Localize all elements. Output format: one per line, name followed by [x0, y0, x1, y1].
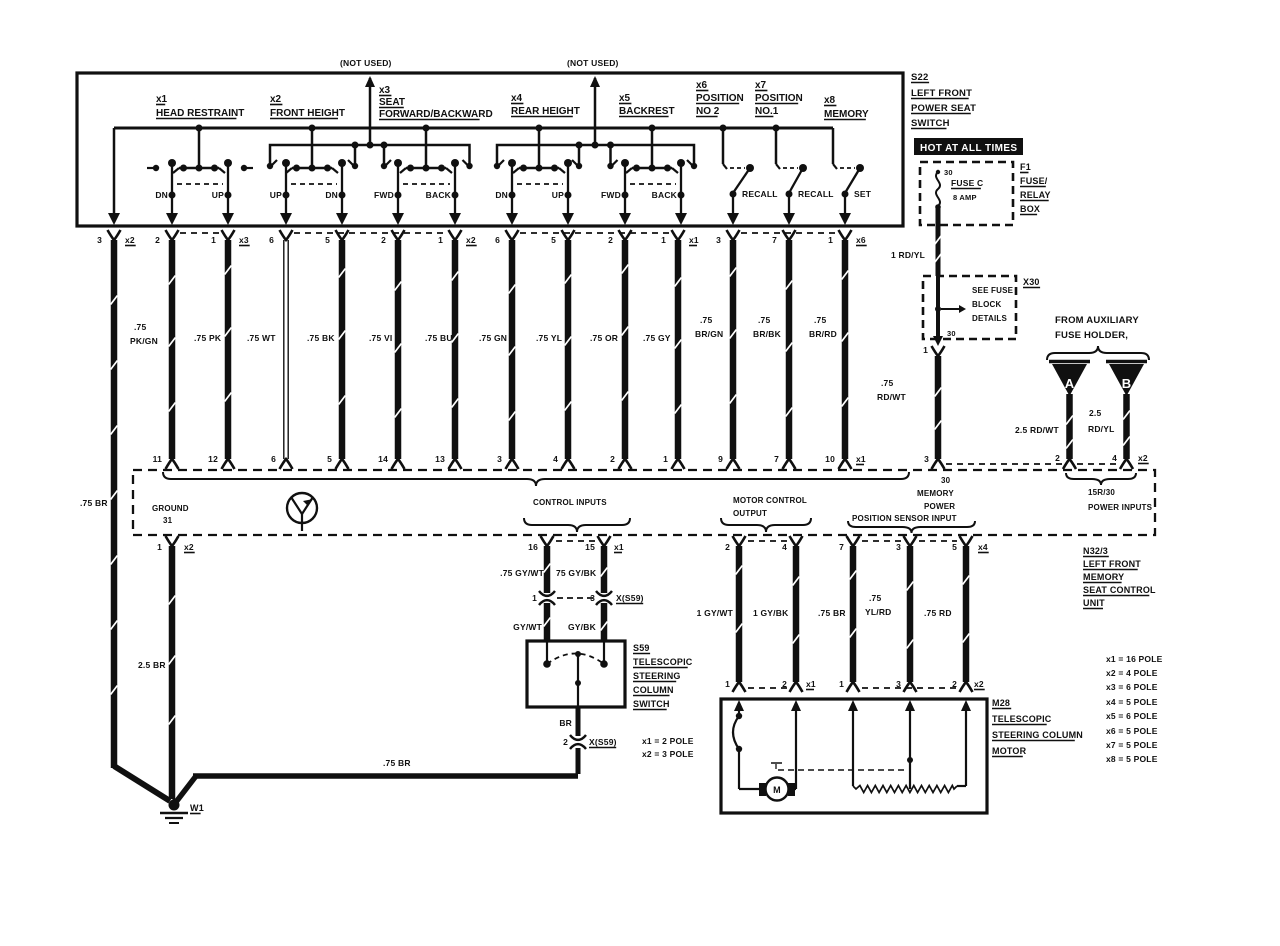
switch head restraint contact bar	[179, 167, 219, 170]
wire .75 OR vertical run	[622, 240, 629, 459]
wire GY/WT	[544, 603, 551, 641]
svg-text:X(S59): X(S59)	[616, 593, 644, 603]
switch head restraint common riser	[198, 128, 201, 168]
switch position/memory no.1 lever RECALL	[730, 167, 745, 169]
svg-text:1: 1	[663, 454, 668, 464]
connector pin 11 at control unit top	[166, 459, 179, 469]
svg-text:PK/GN: PK/GN	[130, 336, 158, 346]
wire .75 PK vertical run	[225, 240, 232, 459]
arrow out of X30	[933, 336, 943, 346]
dashed connector links at motor M28 top	[748, 687, 788, 689]
motor mechanical link dashed	[771, 762, 782, 764]
svg-text:1: 1	[532, 593, 537, 603]
svg-text:x4: x4	[978, 542, 988, 552]
switch backrest right lever BACK	[677, 159, 685, 167]
wire motor/sensor no.2	[793, 546, 800, 682]
wire .75 BU vertical run	[452, 240, 459, 459]
svg-text:MEMORY: MEMORY	[917, 489, 954, 498]
see fuse block details arrow	[941, 308, 959, 310]
dashed connector links below control unit	[556, 540, 595, 542]
connector pin 5 below S22 / wire .75 YL	[562, 230, 575, 240]
connector pin 1 below S22 / wire .75 BR/RD	[839, 230, 852, 240]
svg-text:MEMORY: MEMORY	[1083, 572, 1124, 582]
svg-text:NO 2: NO 2	[696, 106, 720, 117]
connector pin 1 at motor M28	[847, 682, 860, 692]
svg-text:RD/YL: RD/YL	[1088, 424, 1115, 434]
svg-text:GROUND: GROUND	[152, 504, 189, 513]
svg-text:1: 1	[725, 679, 730, 689]
svg-text:x6 = 5 POLE: x6 = 5 POLE	[1106, 726, 1158, 736]
svg-text:x1 = 16 POLE: x1 = 16 POLE	[1106, 654, 1163, 664]
svg-text:x5: x5	[619, 93, 631, 104]
svg-text:BACKREST: BACKREST	[619, 106, 675, 117]
svg-text:3: 3	[716, 235, 721, 245]
wire 1 RD/YL	[936, 207, 941, 276]
svg-text:.75: .75	[869, 593, 881, 603]
svg-text:FUSE HOLDER,: FUSE HOLDER,	[1055, 330, 1128, 341]
S59 wiper output	[575, 651, 581, 657]
svg-text:POSITION: POSITION	[696, 93, 744, 104]
svg-text:7: 7	[839, 542, 844, 552]
connector pin 3 at motor M28	[904, 682, 917, 692]
svg-text:FUSE/: FUSE/	[1020, 176, 1048, 186]
connector pin 5 below S22 / wire .75 BK	[336, 230, 349, 240]
svg-text:S59: S59	[633, 643, 650, 653]
switch head restraint left lever DN	[168, 159, 176, 167]
svg-text:x6: x6	[696, 80, 708, 91]
svg-text:FORWARD/BACKWARD: FORWARD/BACKWARD	[379, 109, 493, 120]
switch position/memory no.3 riser	[832, 128, 835, 164]
svg-text:GY/WT: GY/WT	[513, 622, 542, 632]
svg-text:UP: UP	[552, 190, 564, 200]
arrow to box top (not used) no.1	[365, 76, 375, 87]
switch backrest output wires with arrows	[624, 195, 626, 213]
connector pin 2 at motor M28	[960, 682, 973, 692]
wire .75 RD/WT	[935, 356, 942, 459]
svg-text:3: 3	[896, 542, 901, 552]
connector pin 1 below X30	[932, 346, 945, 356]
svg-text:HEAD RESTRAINT: HEAD RESTRAINT	[156, 108, 244, 119]
motor symbol	[759, 783, 766, 796]
svg-text:2: 2	[725, 542, 730, 552]
svg-text:6: 6	[271, 454, 276, 464]
svg-text:SEE FUSE: SEE FUSE	[972, 286, 1014, 295]
svg-text:DETAILS: DETAILS	[972, 314, 1007, 323]
switch backrest mechanical link	[630, 183, 676, 185]
sensor wiper wire	[909, 712, 911, 789]
svg-text:13: 13	[435, 454, 445, 464]
connector pin 7 below S22 / wire .75 BR/BK	[783, 230, 796, 240]
svg-text:2: 2	[155, 235, 160, 245]
svg-text:7: 7	[774, 454, 779, 464]
svg-text:1: 1	[157, 542, 162, 552]
switch front height output wires with arrows	[285, 195, 287, 213]
svg-text:BACK: BACK	[426, 190, 452, 200]
svg-text:SWITCH: SWITCH	[911, 118, 950, 129]
svg-text:31: 31	[163, 516, 173, 525]
svg-text:GY/BK: GY/BK	[568, 622, 597, 632]
svg-text:RECALL: RECALL	[798, 189, 834, 199]
wire .75 YL vertical run	[565, 240, 572, 459]
connector pin 3 at control unit (memory power)	[932, 459, 945, 469]
svg-text:.75 BR: .75 BR	[80, 498, 108, 508]
svg-text:x2 = 4 POLE: x2 = 4 POLE	[1106, 668, 1158, 678]
fuse C symbol	[936, 170, 940, 174]
svg-text:REAR HEIGHT: REAR HEIGHT	[511, 106, 580, 117]
svg-text:.75: .75	[814, 315, 826, 325]
svg-text:YL/RD: YL/RD	[865, 607, 892, 617]
svg-text:NO.1: NO.1	[755, 106, 779, 117]
svg-text:6: 6	[269, 235, 274, 245]
svg-text:FROM AUXILIARY: FROM AUXILIARY	[1055, 315, 1139, 326]
svg-text:COLUMN: COLUMN	[633, 685, 674, 695]
connector pin 13 at control unit top	[449, 459, 462, 469]
svg-text:FWD: FWD	[601, 190, 621, 200]
wire 2.5 BR	[169, 546, 176, 799]
svg-text:5: 5	[551, 235, 556, 245]
connector pin 1 below S22 / wire .75 PK	[222, 230, 235, 240]
wire .75 BK vertical run	[339, 240, 346, 459]
wire .75 BR left ground run	[111, 240, 118, 768]
switch position/memory no.2 riser	[775, 128, 778, 164]
svg-text:W1: W1	[190, 803, 204, 813]
svg-text:1 GY/WT: 1 GY/WT	[697, 608, 734, 618]
connector pin 2 at motor M28	[790, 682, 803, 692]
svg-text:.75 GY: .75 GY	[643, 333, 671, 343]
svg-text:30: 30	[944, 168, 953, 177]
svg-text:x1: x1	[806, 679, 816, 689]
connector pin 3 at control unit top	[506, 459, 519, 469]
svg-text:1: 1	[438, 235, 443, 245]
svg-text:POSITION SENSOR INPUT: POSITION SENSOR INPUT	[852, 514, 957, 523]
arrow into M28 no.5	[961, 700, 971, 711]
wire inside X30	[936, 276, 940, 336]
svg-text:7: 7	[772, 235, 777, 245]
svg-text:M: M	[773, 785, 781, 795]
svg-text:2: 2	[608, 235, 613, 245]
switch seat fwd/back common riser	[425, 128, 428, 168]
connector pin 4 at control unit top	[562, 459, 575, 469]
svg-text:BACK: BACK	[652, 190, 678, 200]
svg-text:.75: .75	[881, 378, 893, 388]
connector pin 5 at control unit top	[336, 459, 349, 469]
fuse holder terminal B	[1106, 360, 1147, 364]
connector box X30 dashed outline	[923, 276, 1016, 339]
switch position/memory no.2 output wire	[788, 194, 790, 213]
connector pin 1 below S22 / wire .75 GY	[672, 230, 685, 240]
svg-text:DN: DN	[495, 190, 508, 200]
svg-text:10: 10	[825, 454, 835, 464]
power inputs brace	[1066, 473, 1136, 485]
switch position/memory no.3 output wire	[844, 194, 846, 213]
power seat switch box S22 outline	[77, 73, 903, 226]
svg-text:1: 1	[828, 235, 833, 245]
connector pin 1 below S22 / wire .75 BU	[449, 230, 462, 240]
svg-text:.75 BR: .75 BR	[383, 758, 411, 768]
svg-text:RD/WT: RD/WT	[877, 392, 906, 402]
svg-text:x1: x1	[156, 94, 168, 105]
ground W1	[169, 800, 180, 811]
wire .75 BR/GN vertical run	[730, 240, 737, 459]
svg-text:FRONT HEIGHT: FRONT HEIGHT	[270, 108, 345, 119]
svg-text:9: 9	[718, 454, 723, 464]
wire motor/sensor no.5	[963, 546, 970, 682]
connector pin 2 below S22 / wire .75 PK/GN	[166, 230, 179, 240]
svg-text:.75 YL: .75 YL	[536, 333, 562, 343]
svg-text:4: 4	[553, 454, 558, 464]
connector pin 5 motor/sensor at control unit	[960, 536, 973, 546]
connector pin 3 below S22 / wire .75 BR/GN	[727, 230, 740, 240]
svg-text:5: 5	[327, 454, 332, 464]
switch backrest left lever FWD	[621, 159, 629, 167]
svg-text:(NOT USED): (NOT USED)	[340, 58, 392, 68]
svg-text:x2: x2	[184, 542, 194, 552]
auxiliary fuse holder brace	[1047, 346, 1149, 360]
svg-text:CONTROL INPUTS: CONTROL INPUTS	[533, 498, 607, 507]
connector pin 14 at control unit top	[392, 459, 405, 469]
svg-text:x5 = 6 POLE: x5 = 6 POLE	[1106, 711, 1158, 721]
motor control output brace	[721, 518, 811, 532]
svg-text:x1 = 2 POLE: x1 = 2 POLE	[642, 736, 694, 746]
wire .75 BR bottom run	[576, 748, 581, 774]
svg-text:M28: M28	[992, 698, 1010, 708]
switch backrest common riser	[651, 128, 654, 168]
svg-text:x2: x2	[974, 679, 984, 689]
svg-text:x7 = 5 POLE: x7 = 5 POLE	[1106, 740, 1158, 750]
svg-text:RELAY: RELAY	[1020, 190, 1051, 200]
svg-text:x4: x4	[511, 93, 523, 104]
svg-text:75 GY/BK: 75 GY/BK	[556, 568, 597, 578]
svg-text:SET: SET	[854, 189, 872, 199]
switch position/memory no.2 lever RECALL	[783, 167, 798, 169]
connector pin 15 control input	[598, 536, 611, 546]
sensor right end wire	[965, 712, 967, 786]
inline connector X(S59) pin 1	[539, 591, 555, 596]
svg-text:x3: x3	[239, 235, 249, 245]
svg-text:SEAT CONTROL: SEAT CONTROL	[1083, 585, 1156, 595]
connector pin 4 motor/sensor at control unit	[790, 536, 803, 546]
switch head restraint mechanical link	[177, 183, 223, 185]
svg-text:1 GY/BK: 1 GY/BK	[753, 608, 789, 618]
connector pin 1 ground output	[166, 536, 179, 546]
switch rear height mechanical link	[517, 183, 563, 185]
svg-text:x2: x2	[1138, 453, 1148, 463]
position sensor resistor	[852, 712, 854, 786]
switch front height common riser	[311, 128, 314, 168]
svg-text:2: 2	[1055, 453, 1060, 463]
wire .75 VI vertical run	[395, 240, 402, 459]
connector pin 3 motor/sensor at control unit	[904, 536, 917, 546]
svg-text:BR/BK: BR/BK	[753, 329, 782, 339]
switch rear height contact bar	[519, 167, 559, 170]
svg-text:x8: x8	[824, 95, 836, 106]
svg-text:POWER INPUTS: POWER INPUTS	[1088, 503, 1153, 512]
svg-text:x2: x2	[466, 235, 476, 245]
svg-text:8 AMP: 8 AMP	[953, 193, 977, 202]
connector pin 1 at motor M28	[733, 682, 746, 692]
svg-text:2.5 BR: 2.5 BR	[138, 660, 166, 670]
switch position/memory no.1 riser	[722, 128, 725, 164]
svg-text:STEERING COLUMN: STEERING COLUMN	[992, 730, 1083, 740]
svg-text:DN: DN	[325, 190, 338, 200]
arrow into pin 3	[108, 213, 120, 225]
switch rear height left lever DN	[508, 159, 516, 167]
connector pin 9 at control unit top	[727, 459, 740, 469]
dashed connector links at control unit top	[946, 463, 1062, 465]
connector pin 3 below S22 / wire .75 BR (ground side)	[108, 230, 121, 240]
connector pin 6 below S22 / wire .75 WT	[280, 230, 293, 240]
svg-text:DN: DN	[155, 190, 168, 200]
svg-text:30: 30	[941, 476, 951, 485]
switch seat fwd/back mechanical link	[403, 183, 450, 185]
wire .75 GY/BK	[601, 546, 608, 593]
svg-text:S22: S22	[911, 72, 929, 83]
svg-text:.75 PK: .75 PK	[194, 333, 222, 343]
svg-text:.75: .75	[700, 315, 712, 325]
svg-text:x6: x6	[856, 235, 866, 245]
motor to pin 2 wire	[793, 788, 796, 790]
svg-text:2: 2	[610, 454, 615, 464]
svg-text:1 RD/YL: 1 RD/YL	[891, 250, 925, 260]
svg-text:.75: .75	[134, 322, 146, 332]
svg-text:15: 15	[585, 542, 595, 552]
svg-text:BR/GN: BR/GN	[695, 329, 723, 339]
arrow to box top (not used) no.2	[590, 76, 600, 87]
connector pin 7 at control unit top	[783, 459, 796, 469]
svg-text:2: 2	[381, 235, 386, 245]
svg-text:.75 RD: .75 RD	[924, 608, 952, 618]
svg-text:UNIT: UNIT	[1083, 598, 1105, 608]
svg-text:.75 GY/WT: .75 GY/WT	[500, 568, 544, 578]
svg-text:x1: x1	[689, 235, 699, 245]
connector pin 6 below S22 / wire .75 GN	[506, 230, 519, 240]
transistor symbol in control unit	[287, 493, 317, 523]
M28 internal switch contact	[738, 712, 740, 716]
svg-text:3: 3	[924, 454, 929, 464]
position sensor input brace	[848, 521, 975, 533]
svg-text:.75 BR: .75 BR	[818, 608, 846, 618]
svg-text:x7: x7	[755, 80, 767, 91]
wire .75 GN vertical run	[509, 240, 516, 459]
svg-text:1: 1	[923, 345, 928, 355]
wire common bus of S22 switches	[114, 127, 833, 130]
arrow into M28 no.2	[791, 700, 801, 711]
connector pin 2 below S22 / wire .75 VI	[392, 230, 405, 240]
svg-text:FWD: FWD	[374, 190, 394, 200]
svg-text:1: 1	[839, 679, 844, 689]
svg-text:FUSE C: FUSE C	[951, 178, 983, 188]
svg-text:(NOT USED): (NOT USED)	[567, 58, 619, 68]
svg-text:MOTOR CONTROL: MOTOR CONTROL	[733, 496, 807, 505]
telescopic steering column motor M28 box	[721, 699, 987, 813]
wire motor/sensor no.3	[850, 546, 857, 682]
svg-text:x1: x1	[614, 542, 624, 552]
svg-text:MEMORY: MEMORY	[824, 109, 869, 120]
wire .75 WT (hollow)	[283, 240, 285, 459]
svg-text:x1: x1	[856, 454, 866, 464]
switch front height left lever UP	[282, 159, 290, 167]
wire .75 BR/BK vertical run	[786, 240, 793, 459]
switch head restraint output wires with arrows	[171, 195, 173, 213]
svg-text:x2: x2	[125, 235, 135, 245]
connector pin 2 motor/sensor at control unit	[733, 536, 746, 546]
svg-text:.75 BK: .75 BK	[307, 333, 335, 343]
wire .75 PK/GN vertical run	[169, 240, 176, 459]
svg-text:LEFT FRONT: LEFT FRONT	[911, 88, 972, 99]
wire not-used bus B	[497, 145, 694, 165]
svg-text:x8 = 5 POLE: x8 = 5 POLE	[1106, 754, 1158, 764]
switch front height mechanical link	[291, 183, 337, 185]
svg-text:N32/3: N32/3	[1083, 546, 1108, 556]
switch front height right lever DN	[338, 159, 346, 167]
svg-text:30: 30	[947, 329, 956, 338]
control unit N32/3 dashed outline	[133, 470, 1155, 535]
svg-text:TELESCOPIC: TELESCOPIC	[633, 657, 693, 667]
switch position/memory no.3 lever SET	[840, 167, 855, 169]
switch rear height common riser	[538, 128, 541, 168]
svg-text:x4 = 5 POLE: x4 = 5 POLE	[1106, 697, 1158, 707]
telescopic steering column switch S59 box	[527, 641, 625, 707]
control unit input brace	[163, 472, 909, 486]
connector pin 16 control input	[541, 536, 554, 546]
switch seat fwd/back output wires with arrows	[397, 195, 399, 213]
svg-text:BR: BR	[559, 718, 572, 728]
inline connector X(S59) pin 3	[596, 591, 612, 596]
svg-text:STEERING: STEERING	[633, 671, 681, 681]
svg-text:3: 3	[97, 235, 102, 245]
fuse box F1 dashed outline	[920, 162, 1013, 225]
switch head restraint right lever UP	[224, 159, 232, 167]
svg-text:16: 16	[528, 542, 538, 552]
wire GY/BK	[601, 603, 608, 641]
arrow into M28 no.1	[734, 700, 744, 711]
svg-text:OUTPUT: OUTPUT	[733, 509, 767, 518]
svg-text:x2 = 3 POLE: x2 = 3 POLE	[642, 749, 694, 759]
svg-text:5: 5	[952, 542, 957, 552]
switch seat fwd/back right lever BACK	[451, 159, 459, 167]
stationary contacts of not-used bus	[267, 163, 273, 169]
dashed connector links below S22	[180, 232, 220, 234]
connector pin 12 at control unit top	[222, 459, 235, 469]
switch rear height right lever UP	[564, 159, 572, 167]
switch head restraint dead stubs	[147, 167, 156, 169]
svg-text:2: 2	[563, 737, 568, 747]
wire .75 GY/WT	[544, 546, 551, 593]
svg-text:.75 OR: .75 OR	[590, 333, 618, 343]
svg-text:x3: x3	[379, 85, 391, 96]
svg-text:MOTOR: MOTOR	[992, 746, 1027, 756]
svg-text:SWITCH: SWITCH	[633, 699, 670, 709]
svg-text:.75 WT: .75 WT	[247, 333, 276, 343]
wire not-used bus A	[270, 145, 470, 165]
switch seat fwd/back left lever FWD	[394, 159, 402, 167]
svg-text:POSITION: POSITION	[755, 93, 803, 104]
svg-text:SEAT: SEAT	[379, 97, 405, 108]
svg-text:11: 11	[153, 454, 162, 464]
wire 2.5 RD/WT	[1066, 394, 1073, 459]
wire 2.5 RD/YL	[1123, 394, 1130, 459]
svg-text:4: 4	[1112, 453, 1117, 463]
svg-text:TELESCOPIC: TELESCOPIC	[992, 714, 1052, 724]
switch position/memory no.1 output wire	[732, 194, 734, 213]
svg-text:HOT AT ALL TIMES: HOT AT ALL TIMES	[920, 143, 1018, 154]
svg-text:BLOCK: BLOCK	[972, 300, 1001, 309]
svg-text:A: A	[1065, 376, 1075, 391]
connector pin 10 at control unit top	[839, 459, 852, 469]
wire .75 BR/RD vertical run	[842, 240, 849, 459]
HOT AT ALL TIMES banner	[914, 138, 1023, 155]
inline connector X(S59) pin 2	[570, 735, 586, 740]
